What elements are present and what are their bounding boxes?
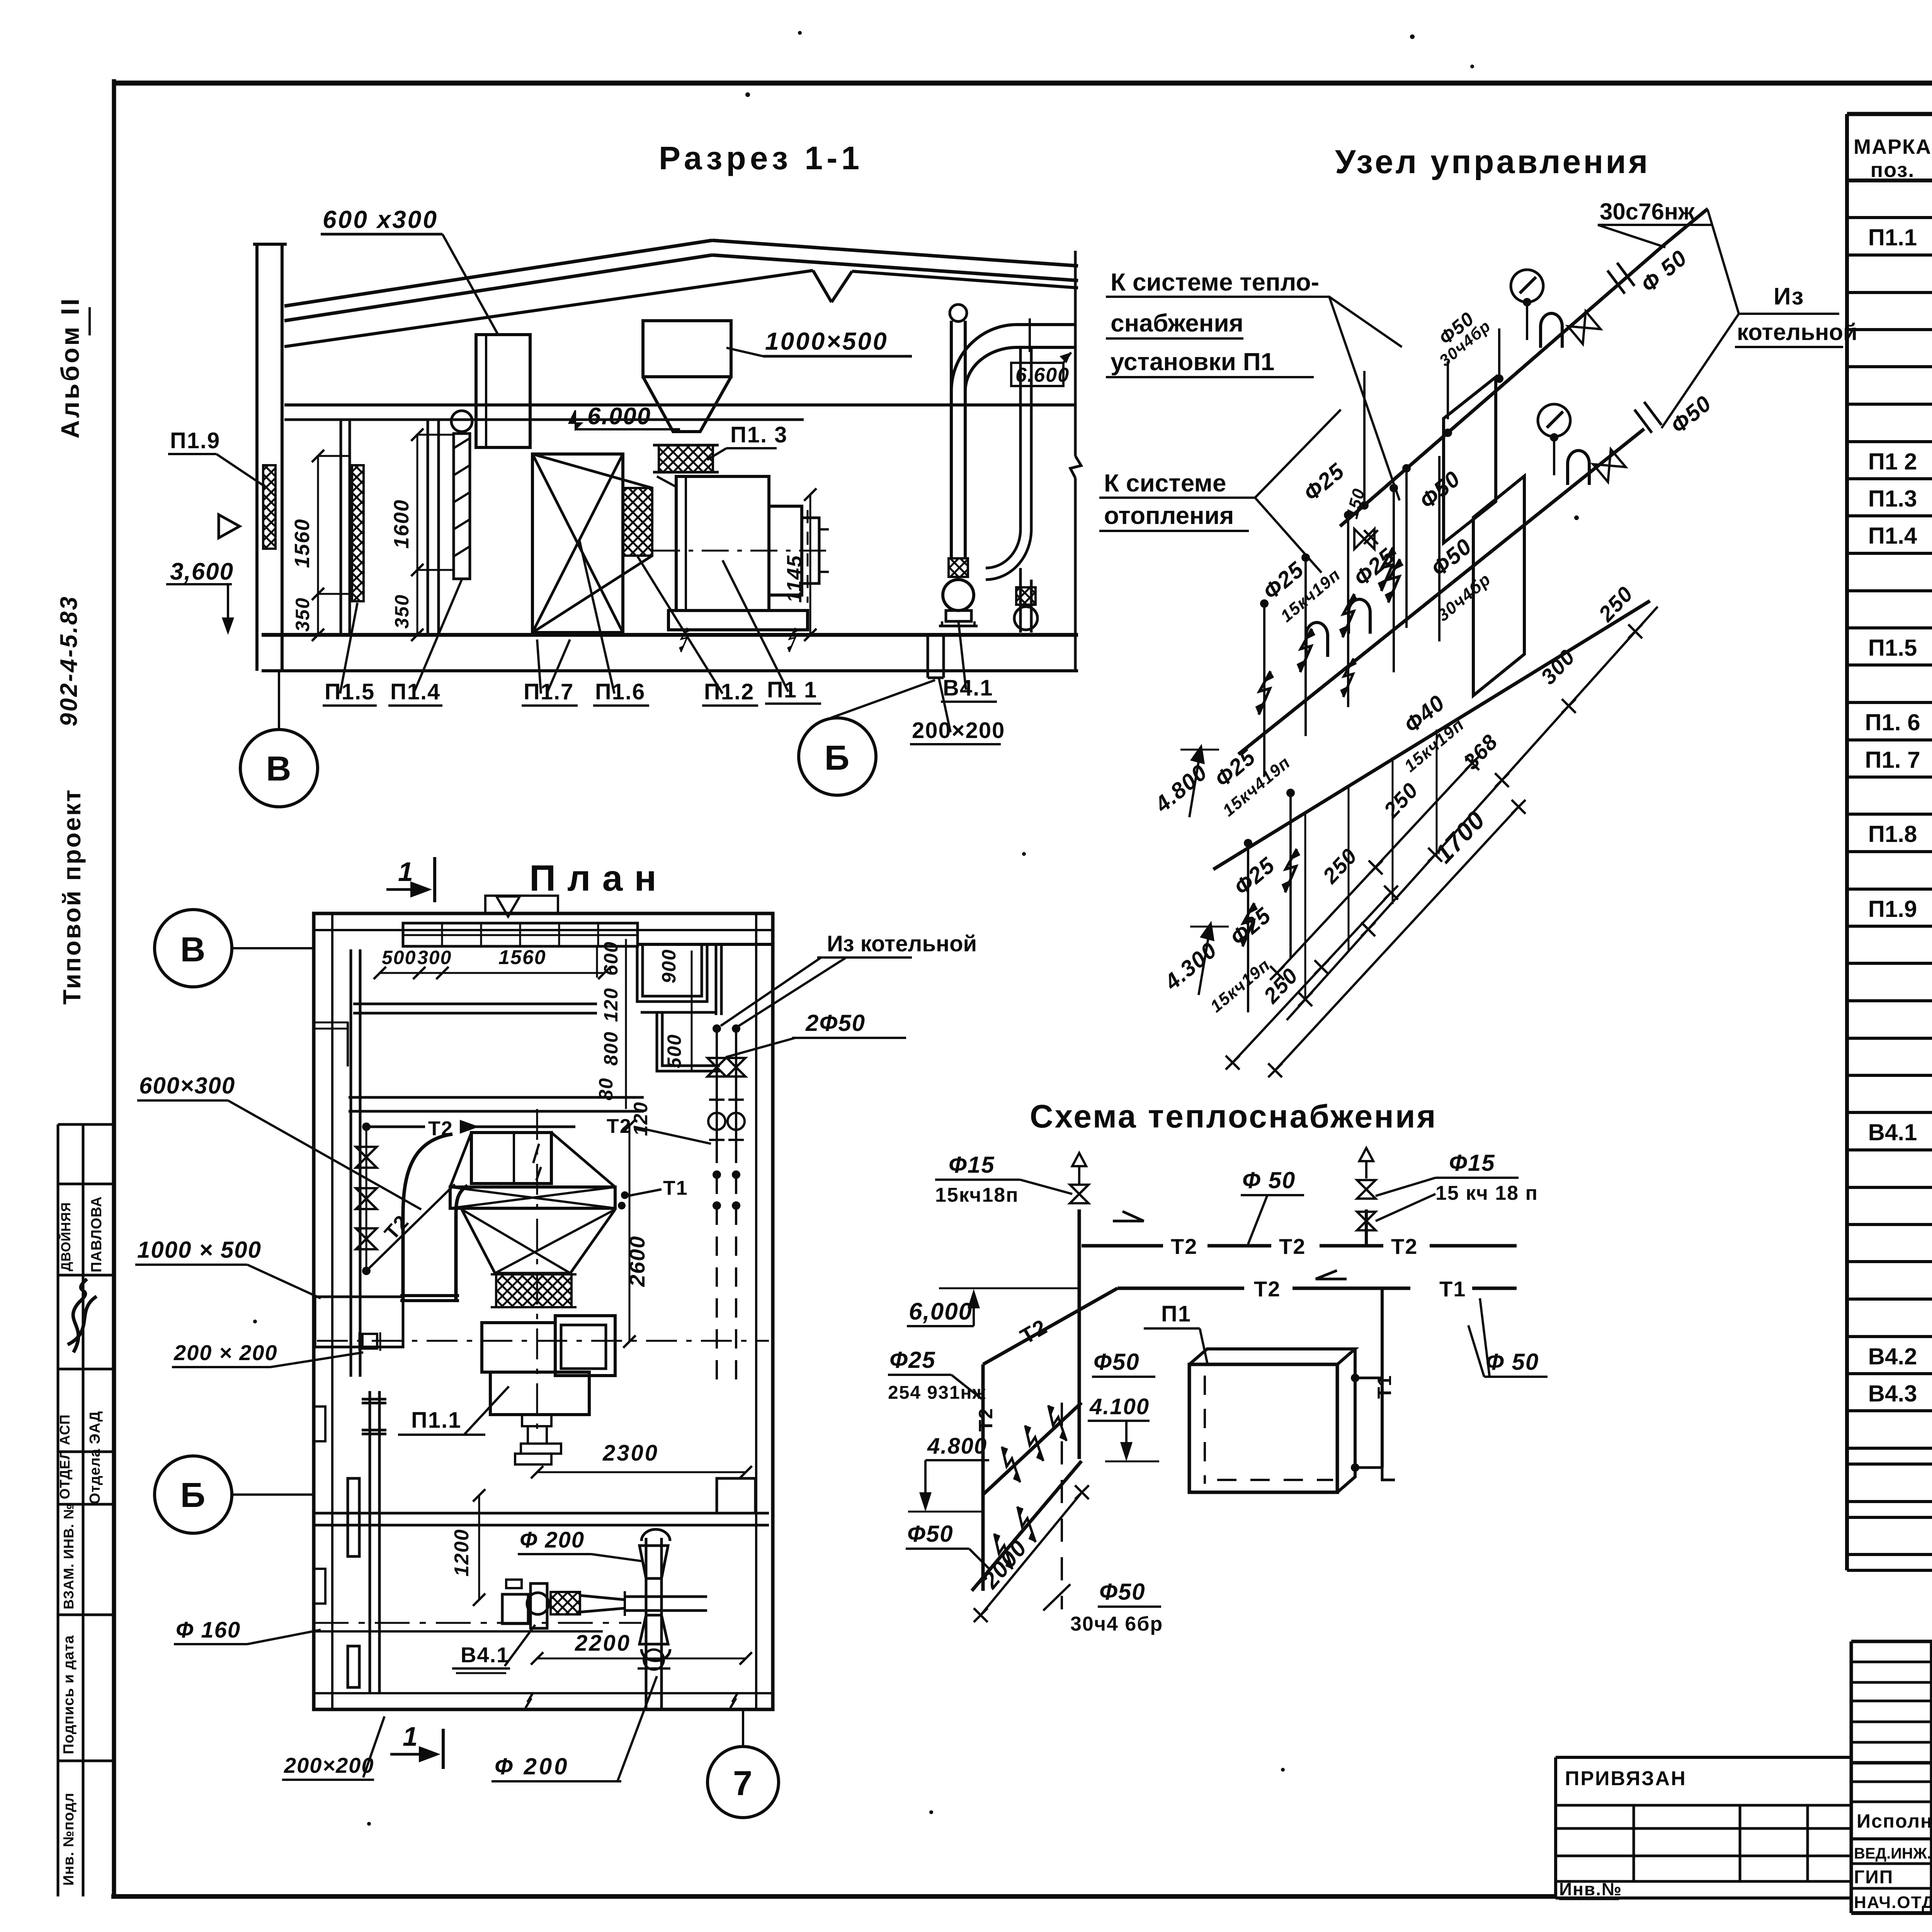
svg-text:1000 × 500: 1000 × 500 (137, 1237, 262, 1263)
vibration springs (679, 628, 689, 652)
svg-text:П1.1: П1.1 (1868, 224, 1917, 250)
svg-text:котельной: котельной (1737, 319, 1857, 345)
svg-text:Ф 160: Ф 160 (176, 1617, 241, 1643)
level mark 6.000 (569, 410, 582, 429)
schema diagonal T2 drop (983, 1288, 1117, 1364)
uzel dim chain A with 368/300/250 (1287, 607, 1658, 1020)
svg-text:254 931нж: 254 931нж (888, 1383, 986, 1403)
schema left riser (1078, 1209, 1081, 1459)
svg-text:В: В (180, 930, 206, 969)
svg-text:200 × 200: 200 × 200 (173, 1340, 278, 1365)
uzel pipe 1 fittings (1511, 270, 1543, 302)
level mark 6.600 (1011, 363, 1063, 386)
plan nabla marker (497, 896, 520, 917)
plan vertical pipe Ф200 (645, 1538, 648, 1709)
svg-text:30с76нж: 30с76нж (1600, 199, 1695, 224)
svg-text:ГИП: ГИП (1854, 1867, 1893, 1888)
svg-text:снабжения: снабжения (1111, 309, 1243, 337)
uzel pipe 3 (lower) (1213, 601, 1650, 869)
schema T1 drop into box (1381, 1288, 1384, 1468)
uzel lower verticals with expansion joints (1263, 603, 1265, 777)
executors row line 1 (1851, 1801, 1932, 1803)
spec table outer verticals (1845, 114, 1849, 1570)
svg-text:ВЗАМ. ИНВ. №: ВЗАМ. ИНВ. № (61, 1503, 77, 1609)
svg-text:Ф15: Ф15 (949, 1152, 995, 1178)
section roof top chords (284, 240, 712, 306)
section floor (262, 633, 1078, 637)
svg-text:Ф50: Ф50 (1094, 1349, 1140, 1375)
plan flanged pipe lower-left (369, 1391, 371, 1693)
svg-text:Т2: Т2 (1171, 1234, 1197, 1259)
svg-text:В4.1: В4.1 (1868, 1119, 1917, 1145)
svg-text:НАЧ.ОТД: НАЧ.ОТД (1854, 1893, 1932, 1912)
svg-text:1: 1 (398, 857, 414, 887)
svg-text:Т2: Т2 (1254, 1277, 1281, 1301)
roof branch tick (1029, 318, 1031, 352)
executors row line 2 (1851, 1837, 1932, 1840)
svg-text:Инв.№: Инв.№ (1559, 1879, 1622, 1899)
svg-text:Исполн.: Исполн. (1857, 1810, 1932, 1832)
svg-text:П1.5: П1.5 (325, 679, 375, 704)
svg-text:1: 1 (403, 1721, 418, 1752)
svg-text:Разрез 1-1: Разрез 1-1 (659, 140, 863, 176)
svg-text:В4.2: В4.2 (1868, 1344, 1917, 1369)
schema vertical dashed (1061, 1403, 1063, 1609)
svg-text:2200: 2200 (575, 1631, 631, 1656)
П1.3 flange lines (653, 444, 719, 447)
plan duct elbow 600x300 (403, 1134, 452, 1301)
svg-text:П1.8: П1.8 (1868, 821, 1917, 847)
schema left vertical pipe (981, 1364, 985, 1591)
svg-text:Ф 200: Ф 200 (495, 1753, 570, 1779)
svg-text:П1.9: П1.9 (170, 428, 220, 453)
plan funnel (462, 1209, 615, 1273)
fan П1.1 casing (676, 476, 769, 611)
svg-text:Подпись и дата: Подпись и дата (61, 1635, 77, 1754)
section wall grille opening П1.9 (263, 465, 276, 549)
uzel drop lines to dim chains (1304, 813, 1306, 999)
svg-text:П1. 6: П1. 6 (1865, 709, 1920, 735)
svg-text:ПАВЛОВА: ПАВЛОВА (88, 1196, 105, 1272)
svg-text:Из котельной: Из котельной (827, 931, 977, 956)
svg-text:К системе тепло-: К системе тепло- (1111, 268, 1319, 296)
svg-text:200×200: 200×200 (284, 1753, 374, 1777)
svg-text:1560: 1560 (498, 946, 546, 969)
svg-text:МАРКА: МАРКА (1854, 135, 1932, 158)
svg-text:П1.3: П1.3 (1868, 486, 1917, 512)
svg-text:Из: Из (1774, 283, 1804, 310)
svg-text:1560: 1560 (291, 519, 314, 568)
svg-text:15 кч 18 п: 15 кч 18 п (1435, 1182, 1538, 1204)
svg-text:К системе: К системе (1104, 469, 1226, 497)
air valve П1.4 strip (454, 434, 470, 579)
svg-text:Т1: Т1 (1439, 1277, 1466, 1301)
svg-text:2Ф50: 2Ф50 (805, 1010, 866, 1036)
fan П1.1 motor (769, 506, 802, 595)
svg-text:Схема теплоснабжения: Схема теплоснабжения (1030, 1098, 1437, 1134)
svg-text:Отдела ЭАД: Отдела ЭАД (87, 1411, 103, 1504)
svg-text:800: 800 (600, 1031, 622, 1066)
motor detail dashes (807, 510, 809, 603)
small duct 200x200 below floor (927, 635, 929, 678)
svg-text:4.100: 4.100 (1089, 1394, 1150, 1419)
pipe flange bulbs (639, 1546, 668, 1578)
svg-text:П1.9: П1.9 (1868, 896, 1917, 922)
П1.4 actuator circle (451, 411, 472, 432)
svg-text:Инв. №подл: Инв. №подл (61, 1793, 77, 1886)
fan shaft axis (dash-dot) (653, 550, 835, 552)
frame top border (115, 81, 1932, 86)
svg-text:П1. 7: П1. 7 (1865, 747, 1920, 773)
plan top dim 500/300/1560 (380, 972, 604, 974)
svg-text:Ф 50: Ф 50 (1242, 1167, 1296, 1193)
svg-text:2600: 2600 (625, 1235, 649, 1287)
plan bottom-left wall notches (314, 1569, 325, 1604)
uzel main pipe 1 (top) (1340, 245, 1663, 526)
plan roof vent stub (485, 896, 558, 913)
svg-text:поз.: поз. (1871, 158, 1915, 182)
svg-text:Альбом II: Альбом II (56, 296, 84, 439)
svg-text:1000×500: 1000×500 (765, 327, 888, 355)
svg-text:1600: 1600 (390, 499, 413, 549)
hopper 1000x500 (643, 321, 731, 377)
svg-text:Т2: Т2 (975, 1408, 997, 1432)
svg-text:Ф50: Ф50 (907, 1521, 954, 1547)
elbow outlet cap (400, 1294, 459, 1297)
plan interior wall band 2 (349, 1096, 644, 1099)
schema flow arrow right (1113, 1211, 1144, 1221)
plan stepped duct runs top-right (637, 946, 707, 1002)
pump circle (1014, 607, 1037, 630)
schema box dashed interior (1204, 1376, 1206, 1484)
svg-text:350: 350 (292, 597, 313, 632)
privyazan box (1556, 1756, 1851, 1759)
svg-text:Типовой проект: Типовой проект (58, 788, 86, 1005)
fan inlet funnel (657, 476, 676, 487)
svg-text:902-4-5.83: 902-4-5.83 (56, 595, 82, 726)
second riser pair down to floor (1019, 347, 1022, 529)
svg-text:900: 900 (658, 949, 680, 983)
В4.1 fan base (946, 611, 971, 621)
stamp signature scribble (68, 1279, 97, 1352)
6.600 level duct elbow (951, 325, 1017, 391)
plan flexible insert (hatched) (496, 1274, 571, 1307)
svg-text:30ч4 6бр: 30ч4 6бр (1070, 1613, 1163, 1635)
plan outer walls (314, 913, 773, 1709)
svg-text:ДВОЙНЯЯ: ДВОЙНЯЯ (58, 1202, 73, 1271)
plan bottom wall break marks (526, 1692, 533, 1708)
supply duct 600x300 drop (476, 335, 530, 447)
title block bottom line (1851, 1911, 1932, 1915)
plan interior wall left (350, 949, 352, 1377)
svg-text:7: 7 (733, 1764, 753, 1803)
svg-text:ОТДЕЛ АСП: ОТДЕЛ АСП (57, 1414, 73, 1499)
uzel valve stubs on pipe2 row (1378, 548, 1397, 591)
section ceiling beam (284, 403, 1075, 406)
spec table header bottom line (1847, 179, 1932, 182)
schema П1 axon box (1189, 1364, 1337, 1492)
plan axis Б wall band (314, 1512, 769, 1515)
svg-text:6.600: 6.600 (1015, 364, 1070, 386)
svg-text:600×300: 600×300 (139, 1073, 235, 1099)
svg-text:600: 600 (600, 941, 622, 976)
svg-text:15кч18п: 15кч18п (935, 1184, 1019, 1206)
plan top louver opening (403, 923, 638, 946)
scan specks (745, 92, 750, 97)
В4.1 riser duct (950, 321, 953, 558)
section left wall (255, 244, 259, 671)
plan motor square (555, 1316, 615, 1376)
plan motor stem details (522, 1415, 551, 1426)
uzel leader from callout to pipes (1329, 297, 1400, 500)
svg-text:500: 500 (663, 1034, 685, 1068)
plan fan lower rect (490, 1372, 589, 1415)
svg-text:В4.3: В4.3 (1868, 1381, 1917, 1406)
plan В4 fan unit (502, 1594, 528, 1624)
axis bubble Б (799, 718, 876, 795)
title block top line (1851, 1640, 1932, 1643)
flexible insert П1.3 (hatched) (659, 445, 713, 472)
plan dim 2200 (537, 1658, 746, 1660)
svg-text:Ф 200: Ф 200 (520, 1527, 585, 1553)
svg-text:1200: 1200 (451, 1529, 473, 1577)
svg-text:П1.1: П1.1 (411, 1408, 461, 1433)
plan dim 1200 (478, 1495, 480, 1600)
uzel heat-meter plate B (1473, 476, 1524, 696)
uzel heat-meter plate A (1444, 377, 1496, 543)
svg-text:6.000: 6.000 (587, 403, 651, 430)
frame bottom border (left of title block) (111, 1894, 1556, 1899)
plan В4.1 flexible (hatched) (551, 1592, 580, 1614)
svg-text:Ф50: Ф50 (1099, 1579, 1146, 1605)
schema top pipe T2 (1082, 1244, 1163, 1248)
spec table top line (1847, 112, 1932, 116)
executors row line 4 (1851, 1887, 1932, 1890)
filter П1.5 (hatched strip) (352, 465, 364, 601)
plan pipe Ф160 dashdot (314, 1622, 641, 1624)
section roof lower chord with ridge notch (284, 270, 813, 347)
axis bubble В (240, 730, 318, 807)
svg-text:установки П1: установки П1 (1111, 348, 1274, 376)
svg-text:Ф 50: Ф 50 (1486, 1349, 1539, 1375)
uzel dim chain B with 250/250 (1277, 763, 1472, 973)
plan right risers (716, 1029, 718, 1144)
svg-text:П1.4: П1.4 (1868, 523, 1917, 549)
schema dim 2000 (981, 1492, 1082, 1615)
plan small duct mark (362, 1334, 377, 1349)
svg-text:3,600: 3,600 (170, 558, 234, 585)
svg-text:П1.5: П1.5 (1868, 635, 1917, 661)
svg-text:Ф15: Ф15 (1449, 1150, 1495, 1176)
svg-text:отопления: отопления (1104, 502, 1234, 529)
uzel siphon loops small (1306, 622, 1328, 657)
uzel pipe1 break symbol (1607, 270, 1625, 294)
fan base frame (668, 611, 808, 630)
dim line 1560/350 (317, 456, 319, 635)
plan bubbles (155, 910, 232, 987)
svg-text:П1 1: П1 1 (767, 677, 817, 702)
schema lower diagonals with expansion joints (983, 1403, 1082, 1495)
executors row line 3 (1851, 1862, 1932, 1865)
plan section mark 1 (top) (433, 857, 436, 902)
svg-text:350: 350 (391, 594, 413, 629)
В4.1 fan scroll circle (943, 580, 974, 611)
section filter chamber verticals (340, 420, 342, 635)
dim line 1600/350 (417, 435, 418, 635)
svg-text:Узел управления: Узел управления (1335, 143, 1650, 180)
uzel verticals from pipe1 (1363, 371, 1366, 505)
plan dim 2600 (629, 1126, 631, 1342)
uzel pipe 2 (middle) (1238, 429, 1644, 754)
В4.1 flexible insert (hatched) (949, 558, 968, 577)
svg-text:План: План (529, 858, 668, 899)
uzel dim chain D with 250 (1233, 893, 1391, 1063)
plan riser dots (713, 1024, 721, 1033)
plan section mark 1 (bottom) (442, 1729, 445, 1769)
svg-text:П1.6: П1.6 (595, 679, 645, 704)
svg-text:6,000: 6,000 (909, 1298, 973, 1325)
plan fan box (482, 1323, 555, 1372)
svg-text:500: 500 (382, 947, 416, 968)
plan top-right wall line (639, 943, 773, 946)
plan centre axes dash-dot (317, 1340, 769, 1342)
uzel bottom pipe verticals (1289, 792, 1292, 958)
plan T2 supply pipe top (366, 1126, 425, 1128)
plan left edge small pipe stubs (347, 1022, 349, 1066)
svg-text:П1: П1 (1161, 1301, 1191, 1327)
svg-text:2300: 2300 (602, 1440, 659, 1466)
svg-text:120: 120 (600, 988, 622, 1022)
svg-text:Б: Б (825, 739, 850, 777)
riser top cap circle (950, 304, 967, 321)
svg-text:ПРИВЯЗАН: ПРИВЯЗАН (1565, 1767, 1687, 1790)
schema left riser vent+valve (1072, 1153, 1086, 1166)
svg-text:600 х300: 600 х300 (323, 206, 438, 233)
flexible insert П1.2 (hatched) (623, 488, 652, 556)
svg-text:200×200: 200×200 (912, 718, 1005, 743)
svg-text:4.800: 4.800 (927, 1434, 987, 1459)
margin view direction triangle (219, 515, 240, 538)
plan duct stub left (315, 1297, 403, 1347)
plan unit transition trapezoid (450, 1133, 471, 1187)
svg-text:В4.1: В4.1 (943, 675, 993, 701)
svg-text:1145: 1145 (783, 555, 806, 603)
dim line 1145 (810, 495, 811, 635)
underline of II (88, 307, 91, 335)
svg-text:В: В (266, 750, 292, 788)
plan dim 2300 (537, 1471, 746, 1473)
svg-text:П1.2: П1.2 (704, 679, 754, 704)
svg-text:Т1: Т1 (663, 1177, 688, 1199)
svg-text:В4.1: В4.1 (461, 1643, 509, 1667)
svg-text:П1. 3: П1. 3 (730, 422, 787, 447)
plan valves on left riser (356, 1147, 377, 1168)
heater frame П1.6 with X bracing (532, 454, 623, 633)
plan dim lines right cluster (625, 939, 627, 1109)
plan unit inlet box (471, 1133, 551, 1184)
svg-text:Б: Б (180, 1476, 206, 1515)
stamp column grid (57, 1124, 60, 1896)
svg-text:Т2: Т2 (1279, 1234, 1306, 1259)
plan В4 duct taper to pipe (580, 1595, 625, 1600)
schema second pipe T2/T1 (1117, 1287, 1244, 1290)
svg-text:Ф25: Ф25 (889, 1347, 936, 1373)
svg-text:300: 300 (417, 947, 452, 968)
uzel dim chain C with 1700 (1275, 807, 1519, 1070)
schema right riser (1365, 1209, 1368, 1246)
spec table row lines (1847, 216, 1932, 219)
title block registration grid (1851, 1640, 1932, 1643)
svg-text:Т2: Т2 (428, 1117, 453, 1140)
frame left border (112, 79, 116, 1898)
svg-text:ВЕД.ИНЖ.: ВЕД.ИНЖ. (1854, 1845, 1931, 1862)
uzel junction dots (1360, 501, 1369, 510)
section cut line (right) with break mark (1074, 251, 1077, 456)
plan unit wide rect with X (450, 1187, 615, 1208)
svg-text:П1 2: П1 2 (1868, 449, 1917, 474)
svg-text:Т2: Т2 (1391, 1234, 1418, 1259)
underline Инв№ (1559, 1898, 1619, 1900)
